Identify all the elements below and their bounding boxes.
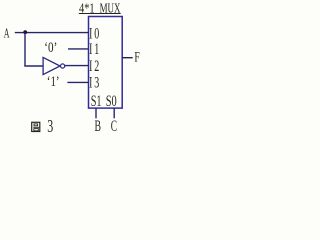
svg-text:A: A — [4, 27, 10, 42]
svg-text:S1: S1 — [91, 93, 102, 110]
svg-text:4*1: 4*1 — [79, 1, 95, 16]
svg-text:MUX: MUX — [100, 1, 121, 16]
MUX block U1: 4*1 MUX rectangle — [89, 17, 123, 109]
svg-text:I: I — [89, 25, 92, 42]
wire '0' to I1 — [68, 48, 89, 50]
svg-text:‘1’: ‘1’ — [47, 74, 60, 90]
svg-text:S0: S0 — [106, 93, 117, 110]
svg-text:3: 3 — [47, 116, 53, 136]
inverter U2 bubble — [61, 64, 65, 68]
svg-text:2: 2 — [94, 58, 99, 75]
wire '1' to I3 — [67, 81, 88, 83]
wire select S0 down — [113, 108, 115, 118]
caption glyph 圖 (figure) drawn manually — [32, 122, 40, 131]
svg-text:I: I — [89, 41, 92, 58]
svg-text:B: B — [95, 118, 102, 135]
wire junction down — [24, 33, 26, 66]
svg-text:1: 1 — [94, 41, 99, 58]
svg-text:F: F — [134, 50, 139, 66]
wire elbow to inverter input — [24, 65, 43, 67]
wire A to I0 — [15, 32, 89, 34]
wire F output — [122, 57, 133, 59]
svg-text:I: I — [89, 58, 92, 75]
svg-text:‘0’: ‘0’ — [44, 40, 57, 56]
inverter U2 triangle — [43, 57, 60, 74]
wire select S1 down — [95, 108, 97, 118]
svg-text:I: I — [89, 75, 92, 92]
svg-text:C: C — [111, 118, 117, 135]
wire inverter output to I2 — [65, 65, 89, 67]
svg-text:3: 3 — [94, 75, 99, 92]
underline of 4*1 MUX — [79, 13, 121, 15]
junction dot on A wire — [23, 30, 27, 34]
svg-text:0: 0 — [94, 25, 99, 42]
